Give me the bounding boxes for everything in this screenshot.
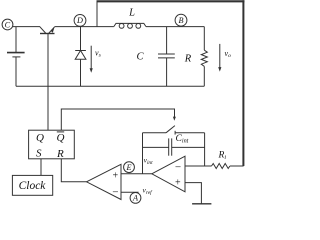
wire	[146, 26, 204, 28]
wire	[40, 159, 42, 176]
resistor R	[201, 27, 207, 87]
wire	[13, 26, 40, 28]
svg-text:Clock: Clock	[19, 180, 47, 192]
svg-text:+: +	[112, 171, 119, 182]
wire	[242, 0, 244, 166]
label vs	[90, 46, 101, 73]
svg-text:vs: vs	[95, 49, 101, 59]
wire	[97, 0, 245, 2]
ground	[192, 203, 211, 205]
capacitor C	[158, 27, 175, 87]
flip-flop U2	[29, 130, 75, 159]
wire	[121, 173, 152, 175]
wire	[47, 34, 49, 131]
transistor Q1	[40, 27, 55, 34]
wire	[142, 133, 144, 174]
svg-text:vref: vref	[143, 186, 154, 196]
svg-text:−: −	[174, 162, 181, 174]
op-amp U3 integrator	[152, 156, 185, 192]
wire	[121, 191, 139, 193]
wire	[55, 26, 114, 28]
svg-text:A: A	[132, 194, 139, 203]
clock box	[12, 175, 52, 195]
svg-text:S: S	[36, 148, 42, 160]
svg-text:E: E	[125, 163, 131, 172]
node E	[124, 162, 135, 173]
svg-text:+: +	[174, 178, 181, 189]
wire	[185, 165, 212, 167]
switch S1	[143, 126, 205, 135]
node C	[2, 19, 13, 30]
pin Qbar	[57, 132, 65, 144]
svg-text:B: B	[178, 16, 183, 25]
svg-text:vint: vint	[144, 156, 154, 166]
op-amp U1 comparator	[87, 164, 122, 199]
inductor L	[114, 23, 146, 28]
svg-text:Ri: Ri	[218, 151, 227, 161]
svg-text:R: R	[56, 148, 64, 160]
svg-text:Cint: Cint	[176, 134, 189, 144]
node A	[130, 193, 141, 204]
svg-text:R: R	[184, 54, 192, 65]
wire	[61, 109, 176, 130]
resistor Ri	[212, 164, 244, 169]
wire	[204, 133, 206, 166]
node D	[74, 15, 86, 27]
svg-text:vo: vo	[225, 49, 232, 59]
wire	[61, 159, 86, 182]
wire	[185, 183, 201, 204]
node B	[175, 14, 187, 26]
svg-text:Q: Q	[36, 132, 44, 144]
battery V1	[7, 27, 25, 87]
svg-text:−: −	[111, 186, 118, 198]
svg-text:Q: Q	[57, 132, 65, 144]
svg-text:C: C	[136, 52, 144, 63]
label vo	[218, 44, 231, 72]
wire	[16, 85, 204, 87]
svg-text:L: L	[128, 8, 135, 19]
svg-text:C: C	[5, 20, 11, 29]
diode D1	[75, 27, 86, 87]
capacitor Cint	[143, 138, 205, 155]
wire	[96, 2, 98, 27]
svg-text:D: D	[76, 16, 83, 25]
